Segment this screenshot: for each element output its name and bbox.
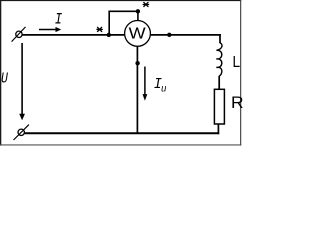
voltage arrow U [19, 43, 25, 120]
wattmeter U1 (meter circle) [125, 21, 151, 47]
wire: voltage terminal stub down to meter [137, 11, 139, 21]
junction node (top of wattmeter voltage terminal) [136, 9, 140, 13]
current arrow Iu [143, 67, 148, 101]
label Iu [154, 76, 167, 94]
svg-text:R: R [231, 94, 244, 112]
terminal X1 (top left input) [12, 27, 26, 42]
wire: wattmeter right to top-right corner [150, 34, 221, 36]
wire: wattmeter bottom to bottom wire (voltage coil return) [136, 46, 138, 133]
svg-text:L: L [233, 54, 241, 71]
svg-text:U: U [1, 70, 8, 87]
wire: voltage coil loop up and across [109, 11, 138, 35]
svg-text:W: W [129, 25, 147, 42]
wire: top terminal to wattmeter left [22, 34, 125, 36]
wire: right corner down to inductor [219, 34, 221, 43]
wire: inductor to resistor [218, 76, 220, 90]
inductor L [216, 43, 222, 76]
wire: bottom return wire [24, 132, 219, 134]
svg-text:u: u [161, 83, 167, 95]
terminal X2 (bottom left input) [14, 125, 29, 140]
junction node on voltage coil return [135, 61, 139, 65]
resistor R (rectangle) [214, 89, 224, 124]
svg-text:I: I [55, 11, 63, 29]
wire: resistor down to bottom-right corner [217, 124, 219, 134]
junction node on output wire [167, 33, 171, 37]
polarity mark * (voltage coil) [143, 2, 148, 6]
polarity mark * (current coil) [97, 27, 102, 31]
junction node (voltage-coil tap on input wire) [107, 33, 111, 37]
current arrow I [39, 27, 61, 32]
